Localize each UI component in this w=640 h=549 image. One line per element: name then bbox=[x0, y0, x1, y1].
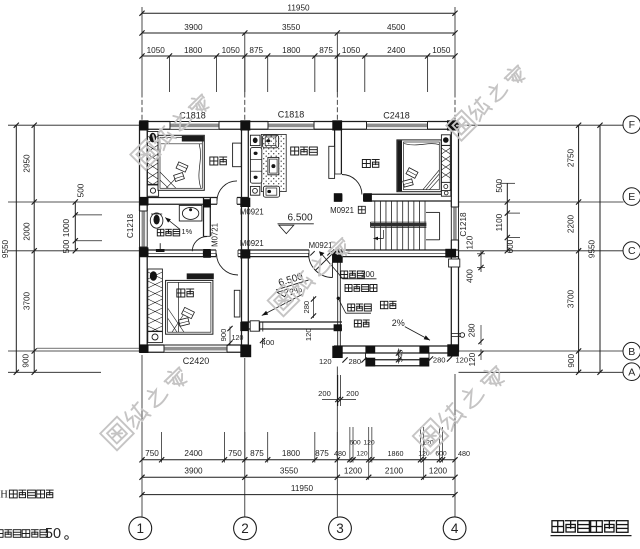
svg-text:A: A bbox=[628, 366, 635, 378]
svg-text:M0921: M0921 bbox=[240, 208, 264, 217]
svg-text:900: 900 bbox=[567, 354, 576, 368]
svg-text:120: 120 bbox=[356, 450, 368, 457]
desk bedroom1 east bbox=[233, 143, 242, 167]
bed bedroom2 bbox=[397, 140, 441, 192]
room label bedroom3 bbox=[177, 289, 185, 297]
window C1818 bedroom1 bbox=[170, 124, 219, 128]
svg-text:875: 875 bbox=[250, 449, 264, 458]
svg-text:120: 120 bbox=[468, 352, 477, 366]
svg-text:9550: 9550 bbox=[1, 239, 10, 258]
watermark top left bbox=[130, 91, 212, 169]
note same as rest bbox=[354, 320, 361, 327]
door M0921 fan terrace jambs bbox=[310, 251, 314, 255]
column Bt2 bbox=[419, 346, 429, 354]
column F3 bbox=[332, 120, 342, 130]
interior wall bedroom1 south horizontal bbox=[140, 197, 218, 199]
svg-text:2950: 2950 bbox=[23, 154, 32, 173]
dim 200 200 below terrace wall bbox=[337, 375, 339, 406]
svg-text:900: 900 bbox=[219, 329, 228, 342]
window C2418 bedroom2 bbox=[367, 124, 428, 128]
svg-text:2: 2 bbox=[241, 521, 249, 536]
drain pipe terrace east bbox=[451, 333, 461, 335]
svg-text:F: F bbox=[629, 119, 635, 131]
pipe box stairs northeast bbox=[441, 190, 450, 196]
grid line E left bbox=[8, 201, 140, 203]
svg-text:875: 875 bbox=[315, 449, 329, 458]
column E3b bbox=[363, 193, 372, 202]
top extension lines bbox=[168, 56, 170, 92]
svg-text:2400: 2400 bbox=[387, 46, 406, 55]
column B4 bbox=[447, 344, 459, 356]
slope arrow 1% bathroom bbox=[165, 218, 180, 230]
grid line B right with bubble B bbox=[459, 350, 624, 352]
corner table living sw bbox=[250, 186, 259, 195]
exterior wall east bbox=[450, 122, 452, 208]
watermark top right bbox=[446, 62, 528, 140]
note water parting line with leader bbox=[348, 304, 355, 311]
column A-wall-right bbox=[334, 324, 342, 331]
window C2420 bedroom3 bbox=[164, 347, 227, 351]
svg-text:600: 600 bbox=[349, 440, 361, 447]
door M0921 arc bedroom2 bbox=[342, 175, 362, 195]
white column stairs south bbox=[449, 259, 460, 267]
bottom dimension row 1 chain bbox=[142, 459, 455, 461]
svg-text:2100: 2100 bbox=[385, 467, 404, 476]
slope arrow hall bbox=[262, 295, 302, 316]
svg-text:4500: 4500 bbox=[387, 23, 406, 32]
bed bedroom1 bbox=[158, 135, 204, 190]
dimension line total 11950 (top row 1) bbox=[142, 12, 455, 14]
nightstand bedroom1 bbox=[147, 185, 158, 196]
coffee table living bbox=[268, 157, 279, 174]
svg-text:C: C bbox=[628, 245, 636, 257]
svg-text:1: 1 bbox=[137, 521, 145, 536]
armchair living south bbox=[263, 186, 279, 197]
svg-text:M0921: M0921 bbox=[240, 239, 264, 248]
grid line C right with bubble C bbox=[459, 250, 624, 252]
svg-text:3550: 3550 bbox=[280, 467, 299, 476]
svg-text:4: 4 bbox=[451, 521, 459, 536]
svg-text:C1818: C1818 bbox=[278, 110, 305, 120]
column B2 bbox=[240, 345, 251, 358]
stair treads bbox=[374, 201, 376, 250]
right minor chain 500/1100/600 bbox=[506, 183, 508, 251]
tv cabinet living east bbox=[329, 146, 335, 178]
column F2 bbox=[240, 120, 250, 130]
left chain dimension 2950/2000/3700/900 bbox=[33, 125, 35, 372]
column B3 bbox=[332, 346, 342, 358]
column F1 bbox=[139, 120, 148, 130]
svg-text:1800: 1800 bbox=[282, 449, 301, 458]
svg-text:C2418: C2418 bbox=[383, 110, 410, 120]
svg-text:3550: 3550 bbox=[282, 23, 301, 32]
grid line 1 dashed top bbox=[141, 93, 143, 122]
svg-text:1050: 1050 bbox=[147, 46, 166, 55]
hall south wall A bbox=[242, 321, 343, 323]
svg-text:C1218: C1218 bbox=[459, 212, 468, 237]
svg-text:50: 50 bbox=[45, 526, 61, 542]
svg-text:C1218: C1218 bbox=[126, 213, 135, 238]
bed bedroom3 bbox=[187, 273, 214, 279]
svg-text:1800: 1800 bbox=[282, 46, 301, 55]
svg-text:900: 900 bbox=[22, 354, 31, 368]
column C3 bbox=[332, 251, 342, 263]
svg-text:11950: 11950 bbox=[287, 3, 310, 12]
svg-text:480: 480 bbox=[458, 449, 470, 458]
column Bt1b bbox=[365, 358, 375, 367]
right chain dimension 2750/2200/3700/900 bbox=[578, 125, 580, 372]
svg-text:120: 120 bbox=[232, 335, 244, 342]
toilet bathroom bbox=[150, 213, 163, 228]
column C1 bbox=[139, 248, 148, 257]
svg-text:200: 200 bbox=[318, 389, 331, 398]
window C1818 living room bbox=[268, 124, 314, 128]
door M0921 arc bedroom1 bbox=[217, 181, 237, 201]
svg-text:2750: 2750 bbox=[566, 148, 575, 167]
svg-text:280: 280 bbox=[302, 301, 311, 314]
grid line 1 bottom with bubble 1 bbox=[141, 355, 143, 517]
column B1 bbox=[139, 345, 148, 353]
grid line 3 dashed top bbox=[336, 33, 338, 93]
svg-text:3700: 3700 bbox=[23, 291, 32, 310]
column F4 bbox=[447, 120, 459, 130]
grid line F left bbox=[8, 124, 140, 126]
grid line 4 bottom with bubble 4 bbox=[454, 374, 456, 517]
watermark bottom right bbox=[413, 363, 508, 454]
svg-text:200: 200 bbox=[361, 270, 375, 279]
svg-text:H: H bbox=[0, 490, 8, 501]
watermark bottom left bbox=[100, 364, 190, 450]
label 2% slope hall sloped bbox=[288, 284, 303, 297]
grid line B left bbox=[8, 350, 140, 352]
note floor level lower 50 bbox=[0, 530, 3, 538]
bottom extension lines bbox=[161, 432, 163, 463]
svg-text:280: 280 bbox=[433, 356, 446, 365]
rug living room dotted bbox=[261, 134, 286, 191]
column C2 bbox=[240, 249, 250, 258]
door M0921 fan terrace bbox=[309, 254, 333, 278]
svg-text:400: 400 bbox=[466, 269, 475, 283]
grid line 3 bottom with bubble 3 bbox=[336, 367, 338, 517]
watermark center bbox=[268, 235, 353, 317]
sofa living west bbox=[250, 148, 261, 184]
svg-text:2000: 2000 bbox=[23, 222, 32, 241]
svg-text:2400: 2400 bbox=[184, 449, 203, 458]
svg-text:M0721: M0721 bbox=[210, 223, 219, 247]
slope arrow terrace bbox=[405, 327, 430, 341]
clothes on bed bedroom1 bbox=[176, 162, 188, 172]
svg-text:1050: 1050 bbox=[432, 46, 451, 55]
wardrobe bedroom2 hatch bbox=[441, 145, 450, 182]
left minor chain 500/1000/500 bbox=[74, 202, 76, 251]
armchair living north bbox=[263, 135, 279, 148]
svg-text:875: 875 bbox=[249, 46, 263, 55]
svg-text:C2420: C2420 bbox=[183, 356, 210, 366]
clothes on bed bedroom2 bbox=[370, 284, 372, 286]
bottom dimension row 2 3900/3550/1200/2100/1200 bbox=[142, 476, 455, 478]
column A-wall-left bbox=[240, 322, 248, 331]
exterior wall west bbox=[139, 122, 141, 212]
column Bt2b bbox=[419, 358, 429, 367]
stair handrail bbox=[371, 223, 427, 226]
column E1b bbox=[203, 199, 211, 207]
door M0921 arc bedroom3 bbox=[217, 254, 239, 276]
terrace parapet south bbox=[334, 345, 459, 347]
svg-text:600: 600 bbox=[435, 450, 447, 457]
wardrobe bedroom2 box north bbox=[441, 135, 450, 146]
title third floor plan layout bbox=[552, 521, 564, 533]
room label bathroom bbox=[157, 229, 164, 236]
svg-text:3900: 3900 bbox=[184, 467, 203, 476]
right dim 400 bbox=[480, 251, 482, 272]
white column hall south bbox=[250, 321, 259, 331]
svg-text:6.500: 6.500 bbox=[287, 212, 312, 223]
interior wall bathroom east vertical bbox=[203, 198, 205, 237]
nightstand bedroom2 south bbox=[441, 182, 450, 190]
svg-text:500: 500 bbox=[495, 179, 504, 193]
svg-text:1800: 1800 bbox=[184, 46, 203, 55]
svg-text:200: 200 bbox=[346, 389, 359, 398]
svg-text:1050: 1050 bbox=[342, 46, 361, 55]
clothes on bed bedroom3 bbox=[182, 307, 195, 318]
svg-text:875: 875 bbox=[319, 46, 333, 55]
interior wall bedroom1-living vertical bbox=[241, 129, 243, 345]
bottom dimension row 3 total 11950 bbox=[142, 494, 455, 496]
right overall dimension 9550 bbox=[599, 125, 601, 372]
svg-text:3700: 3700 bbox=[566, 289, 575, 308]
svg-text:M0921: M0921 bbox=[330, 206, 354, 215]
svg-text:1200: 1200 bbox=[344, 467, 363, 476]
column E1 bbox=[139, 197, 148, 206]
column Bt1 bbox=[365, 346, 375, 354]
room label bedroom2 bbox=[362, 160, 370, 168]
grid line A left bbox=[8, 371, 101, 373]
svg-text:1%: 1% bbox=[181, 227, 192, 236]
svg-text:3900: 3900 bbox=[184, 23, 203, 32]
floor drain bathroom bbox=[159, 243, 161, 249]
corner table living nw with lamp bbox=[250, 135, 260, 145]
room label bedroom1 bbox=[210, 157, 218, 165]
svg-text:600: 600 bbox=[506, 239, 515, 253]
svg-text:120: 120 bbox=[319, 357, 332, 366]
door M0721 arc bathroom bbox=[192, 237, 207, 252]
column C1b bbox=[203, 249, 211, 258]
svg-text:1860: 1860 bbox=[388, 449, 404, 458]
column E3 bbox=[334, 193, 342, 202]
exterior wall north bbox=[140, 121, 171, 123]
svg-text:120: 120 bbox=[304, 328, 313, 341]
grid line A right with bubble A bbox=[459, 371, 624, 373]
washbasin bathroom bbox=[179, 205, 202, 221]
svg-text:2200: 2200 bbox=[566, 214, 575, 233]
svg-text:500: 500 bbox=[77, 183, 86, 197]
window C1218 east stairs bbox=[453, 207, 457, 240]
level mark 6.500 sloped terrace step bbox=[273, 270, 309, 290]
svg-text:120: 120 bbox=[455, 356, 468, 365]
grid line E right with bubble E bbox=[459, 201, 624, 203]
svg-text:1100: 1100 bbox=[495, 213, 504, 231]
svg-text:E: E bbox=[628, 191, 635, 203]
svg-text:480: 480 bbox=[334, 449, 346, 458]
svg-text:280: 280 bbox=[348, 357, 361, 366]
nightstand bedroom3 bbox=[148, 332, 163, 343]
svg-text:M0921: M0921 bbox=[309, 241, 333, 250]
note threshold 200 with leader bbox=[341, 271, 348, 278]
grid line F right with bubble F bbox=[459, 124, 624, 126]
column C4 bbox=[445, 249, 456, 258]
grid line 2 dashed top bbox=[244, 33, 246, 93]
left overall dimension 9550 bbox=[15, 125, 17, 372]
svg-text:3: 3 bbox=[336, 521, 344, 536]
svg-text:2%: 2% bbox=[392, 318, 405, 328]
window C1218 west bathroom bbox=[142, 211, 146, 247]
svg-text:500: 500 bbox=[62, 239, 71, 253]
wardrobe bedroom3 bbox=[148, 269, 163, 331]
svg-text:9550: 9550 bbox=[588, 239, 597, 258]
note plain concrete bbox=[345, 285, 352, 292]
interior wall living-bedroom2 vertical bbox=[334, 129, 336, 174]
exterior wall south bedroom3 bbox=[140, 344, 165, 346]
grid line 2 bottom with bubble 2 bbox=[244, 358, 246, 517]
dimension line 3900/3550/4500 (top row 2) bbox=[142, 32, 455, 34]
svg-text:750: 750 bbox=[228, 449, 242, 458]
dimension line window chain (top row 3) bbox=[142, 55, 455, 57]
svg-text:1200: 1200 bbox=[429, 467, 448, 476]
svg-text:C1818: C1818 bbox=[179, 111, 206, 121]
interior wall south corridor horizontal bbox=[140, 249, 217, 251]
svg-text:1000: 1000 bbox=[62, 218, 71, 237]
grid line C left bbox=[8, 250, 140, 252]
svg-text:B: B bbox=[628, 346, 635, 358]
desk bedroom3 east bbox=[234, 290, 240, 317]
svg-text:1050: 1050 bbox=[222, 46, 241, 55]
svg-text:11950: 11950 bbox=[291, 484, 314, 493]
interior wall stairs north horizontal bbox=[335, 193, 342, 195]
svg-text:120: 120 bbox=[363, 440, 375, 447]
terrace parapet recess band bbox=[366, 359, 430, 361]
svg-text:750: 750 bbox=[145, 449, 159, 458]
terrace west thin wall vertical bbox=[337, 257, 339, 346]
room label living room bbox=[291, 147, 299, 155]
wardrobe bedroom1 bbox=[147, 132, 158, 185]
corridor south wall mid line bbox=[148, 252, 216, 254]
stair landing boundary bbox=[426, 211, 440, 213]
column E2 bbox=[240, 198, 250, 207]
stair down arrow bbox=[374, 237, 384, 239]
room label terrace bbox=[380, 301, 387, 308]
svg-text:280: 280 bbox=[468, 323, 477, 337]
grid line 4 dashed top bbox=[454, 93, 456, 122]
